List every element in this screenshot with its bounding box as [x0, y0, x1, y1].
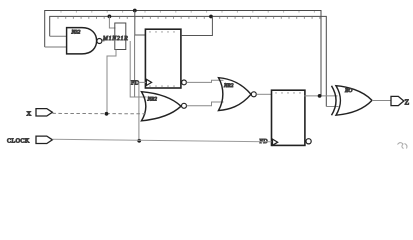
wire FF1 Qbar to NOR2 upper input: [186, 80, 223, 82]
FF2 Q-bar output bubble: [306, 139, 311, 144]
nor gate NR2 first: [142, 92, 182, 121]
svg-text:M1N21R: M1N21R: [102, 36, 128, 42]
wire vertical from outer dot to FF1 D input: [135, 11, 146, 36]
FF1 Q-bar output bubble: [182, 80, 187, 85]
output pin Z: [391, 96, 404, 105]
svg-text:EO: EO: [344, 88, 352, 94]
wire NOR1 output to NOR2 lower input: [187, 102, 224, 106]
wire FF2 Q output to XOR upper input: [304, 95, 337, 97]
nor gate NR2 second: [219, 78, 252, 111]
wire XOR output to Z pin: [372, 100, 391, 102]
wire top inner feedback line Q1: [50, 16, 327, 106]
wire NAND output to vertical: [102, 40, 105, 42]
input pin X: [36, 109, 52, 116]
wire vertical continuation to NOR1 input region: [134, 35, 136, 97]
wire tick texture on inner line: [58, 17, 320, 19]
node dot on inner line x211: [209, 15, 213, 19]
node dot on X line: [105, 112, 109, 116]
faint bottom-right page mark: [398, 143, 407, 149]
wire FF1 clock from CLOCK line: [139, 82, 146, 140]
NOR1 output bubble: [182, 103, 187, 108]
nand N32 output bubble: [97, 39, 102, 44]
node dot FF2 Q / outer line junction: [318, 94, 322, 98]
xor gate EO extra input arc: [332, 86, 337, 116]
input pin CLOCK: [36, 136, 52, 143]
wire from label box bottom to X line: [107, 50, 116, 114]
flipflop FD1 edge ticks: [150, 31, 174, 87]
wire vertical NAND out down to NOR1 upper input: [130, 41, 146, 97]
node dot on outer line x134.8: [133, 9, 137, 13]
flipflop FD2 edge ticks: [276, 92, 300, 94]
svg-text:Z: Z: [405, 97, 410, 106]
NOR2 output bubble: [251, 92, 256, 97]
wire NOR2 output to FF2 D input: [256, 93, 271, 95]
wire NAND upper input: [50, 35, 67, 37]
node dot on CLOCK line: [137, 139, 141, 143]
wire FF1 Q output to inner feedback line: [181, 17, 212, 36]
node dot on inner line x109.4: [108, 15, 112, 19]
wire inner line down to XOR lower input: [326, 106, 338, 108]
FF2 clock triangle: [273, 139, 278, 145]
wire CLOCK line: [52, 139, 271, 142]
svg-text:NR2: NR2: [223, 83, 234, 89]
FF1 clock triangle: [146, 79, 151, 85]
flipflop FD1 body: [145, 29, 181, 88]
net label box: [115, 23, 126, 50]
wire tick texture on outer line: [61, 11, 314, 13]
wire X input line: [52, 112, 147, 114]
xor gate EO body: [336, 86, 372, 116]
svg-text:X: X: [27, 110, 32, 117]
flipflop FD2 body: [272, 90, 305, 145]
wire NAND lower input: [45, 46, 67, 48]
nand gate N32: [67, 28, 97, 54]
svg-text:NR2: NR2: [147, 97, 158, 103]
wire from inner dot down to label box: [109, 16, 115, 28]
svg-text:N32: N32: [71, 30, 81, 36]
wire top outer feedback line Q2: [45, 11, 321, 96]
svg-text:CLOCK: CLOCK: [7, 137, 30, 144]
